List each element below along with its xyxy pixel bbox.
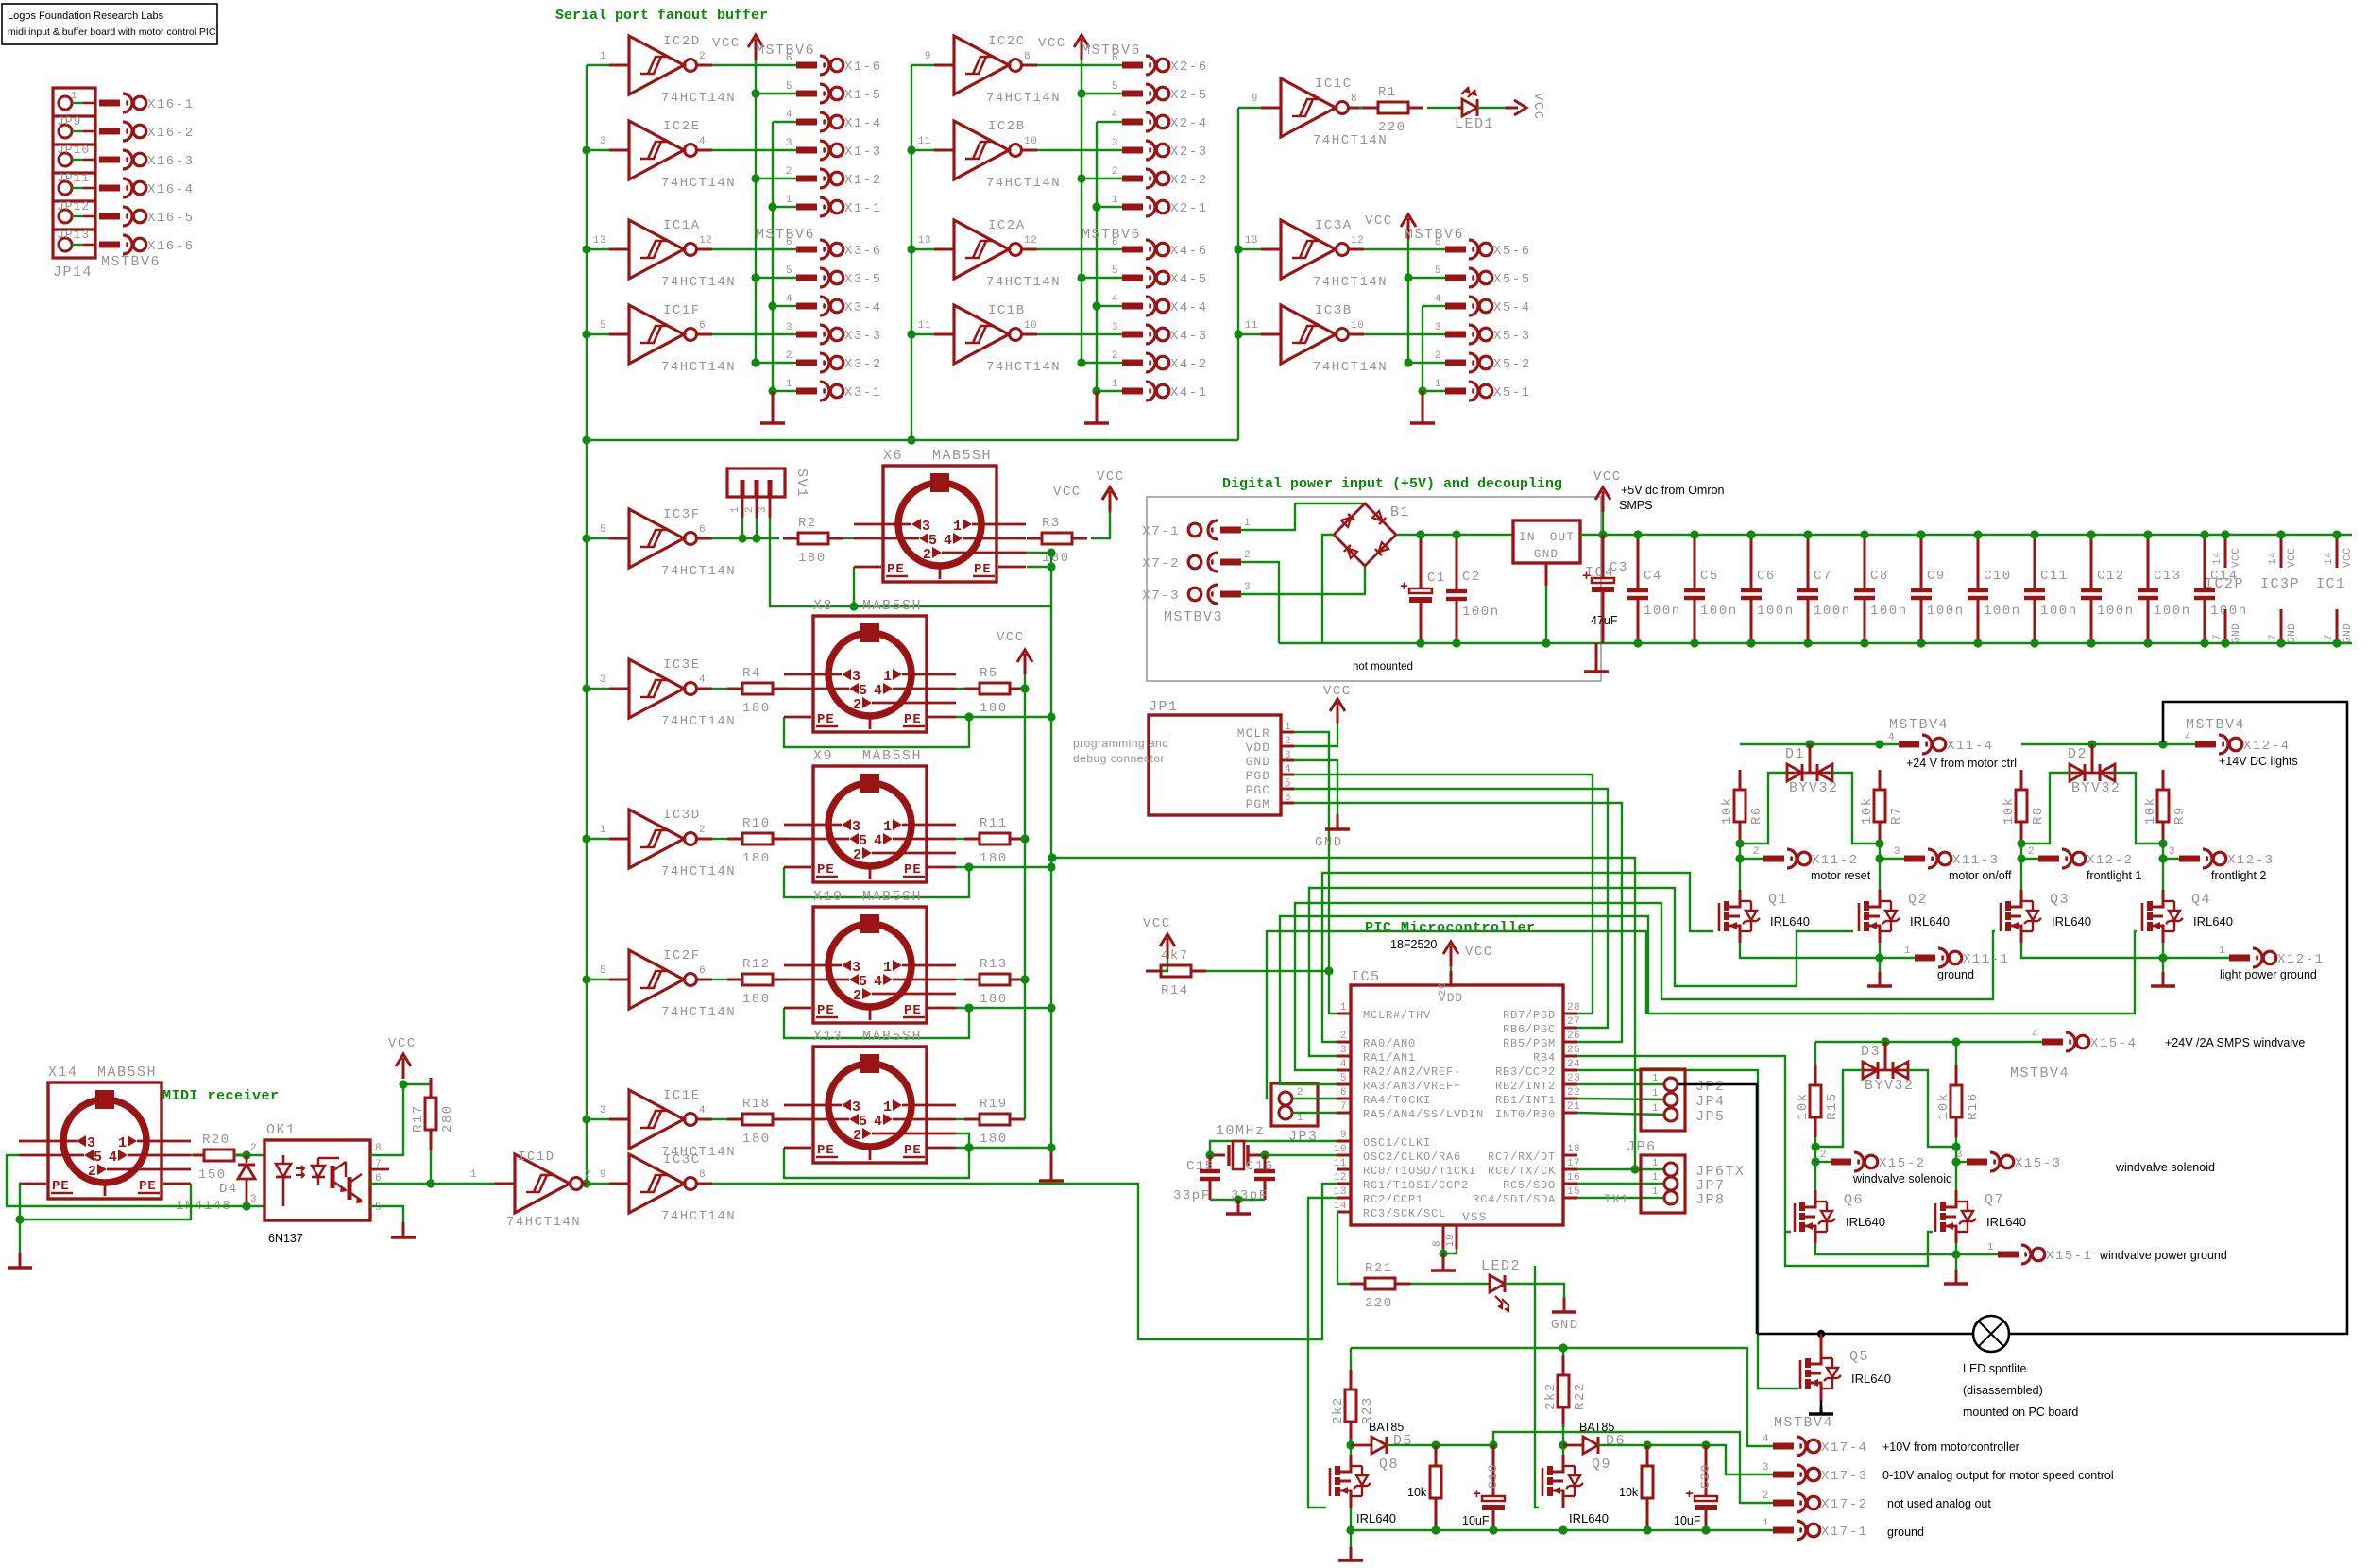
svg-text:1: 1 [2219,946,2225,957]
wire SV1 pins to IC3F output [741,518,743,538]
svg-text:5: 5 [1435,265,1441,277]
svg-text:frontlight 2: frontlight 2 [2211,869,2266,882]
svg-text:Q3: Q3 [2050,892,2070,908]
svg-text:6: 6 [1435,237,1441,248]
inverter IC3A 74HCT14N [1238,218,1388,290]
svg-text:JP12: JP12 [57,199,90,213]
svg-text:TX1: TX1 [1604,1192,1628,1206]
svg-text:VCC: VCC [712,36,741,51]
svg-text:RC6/TX/CK: RC6/TX/CK [1488,1165,1556,1178]
svg-text:BYV32: BYV32 [2071,780,2121,796]
svg-text:5: 5 [1112,265,1118,277]
svg-text:VCC: VCC [1530,93,1545,121]
svg-text:light power ground: light power ground [2220,968,2317,981]
wire LED2 to ground [1505,1284,1579,1333]
inverter IC3F 74HCT14N [587,507,736,579]
connector pin X15-1 [1987,1242,2093,1264]
capacitor C9 100n [1911,530,1965,647]
connector X2 MSTBV6 [1082,43,1208,216]
svg-text:VDD: VDD [1246,741,1270,755]
VCC arrow at R3 [1097,469,1125,512]
svg-text:74HCT14N: 74HCT14N [986,275,1061,290]
svg-text:BYV32: BYV32 [1789,780,1839,796]
wire R20 to OK1 pin2 [234,1154,264,1156]
svg-text:3: 3 [786,138,792,149]
svg-text:74HCT14N: 74HCT14N [506,1215,581,1230]
connector JP3 [1271,1083,1319,1145]
svg-text:LED2: LED2 [1481,1258,1521,1274]
svg-text:2: 2 [1340,1031,1347,1042]
svg-text:C18: C18 [1486,1464,1500,1489]
wire R1 to LED1 [1427,107,1462,109]
resistor R19 180 [964,1097,1025,1147]
svg-text:10uF: 10uF [1674,1514,1701,1527]
wire X14 pin5 loop to OK1 pin3 [7,1155,264,1206]
svg-text:debug connector: debug connector [1073,752,1165,765]
svg-text:X4-3: X4-3 [1170,329,1208,344]
svg-text:4: 4 [944,533,952,549]
svg-text:X12-3: X12-3 [2227,853,2274,868]
svg-text:14: 14 [2324,552,2335,565]
svg-text:6: 6 [699,320,706,332]
wire R14 to MCLR net [1206,970,1329,972]
svg-text:PE: PE [52,1179,70,1194]
svg-text:3: 3 [250,1194,257,1205]
svg-text:PE: PE [904,862,922,878]
svg-text:6N137: 6N137 [268,1232,303,1245]
svg-text:5: 5 [786,265,792,277]
pin7 stub OK1 [370,1168,389,1171]
DIN X6 wires: pin4 to R3 [1023,537,1026,539]
inverter IC2B 74HCT14N [911,119,1061,191]
resistor R18 180 [727,1097,788,1147]
svg-text:12: 12 [1351,235,1364,247]
svg-text:JP10: JP10 [57,143,90,157]
wire X7-2 to ground rail [1240,562,1279,643]
transistor Q5 IRL640 [1800,1334,1891,1400]
svg-text:mounted on PC board: mounted on PC board [1963,1406,2078,1419]
svg-text:IC2E: IC2E [663,119,701,134]
svg-text:X11-1: X11-1 [1963,952,2010,967]
svg-text:JP4: JP4 [1695,1094,1726,1110]
svg-text:74HCT14N: 74HCT14N [1313,133,1388,148]
svg-text:RB4: RB4 [1533,1051,1556,1065]
svg-text:74HCT14N: 74HCT14N [661,176,736,191]
wire JP3 pins to PIC RA4 RA5 [1292,1098,1337,1099]
capacitor C11 100n [2024,530,2078,647]
svg-text:X1-6: X1-6 [844,60,882,75]
svg-text:11: 11 [1245,320,1258,332]
wire IC4 OUT to VCC rail [1580,534,2352,536]
PE loop X10 [784,1003,1056,1038]
svg-text:4: 4 [786,110,792,121]
capacitor C20 10uF [1674,1445,1717,1530]
svg-text:BAT85: BAT85 [1369,1421,1404,1434]
junction dots serial bus [582,145,590,154]
IC5 PIC18F2520 box [1351,969,1563,1225]
svg-text:IN: IN [1519,530,1536,544]
svg-text:X13: X13 [813,1029,843,1045]
svg-text:4: 4 [699,674,706,686]
svg-text:X4-5: X4-5 [1170,272,1208,287]
DIN connector X6 MAB5SH [854,448,1026,582]
svg-text:220: 220 [1365,1296,1393,1311]
svg-text:18F2520: 18F2520 [1390,938,1437,951]
svg-text:MSTBV4: MSTBV4 [1889,717,1949,733]
LED LED1 [1455,87,1494,132]
svg-text:RC5/SDO: RC5/SDO [1503,1179,1556,1192]
svg-text:3: 3 [600,136,606,147]
svg-text:7: 7 [1340,1101,1347,1113]
svg-text:not mounted: not mounted [1353,661,1413,673]
svg-text:Digital power input (+5V) and: Digital power input (+5V) and decoupling [1222,476,1562,492]
svg-text:+24V /2A SMPS windvalve: +24V /2A SMPS windvalve [2165,1036,2305,1049]
inverter IC3E 74HCT14N [587,657,736,729]
svg-text:5: 5 [1285,778,1291,790]
capacitor C4 100n [1627,530,1681,647]
svg-text:JP1: JP1 [1149,699,1179,715]
svg-text:RC7/RX/DT: RC7/RX/DT [1488,1150,1556,1164]
svg-text:SMPS: SMPS [1619,499,1652,512]
svg-text:OUT: OUT [1550,530,1575,544]
DIN connector X13 MAB5SH [784,1029,956,1163]
X6 PE loop [853,567,855,606]
capacitor C1 47u? polarized [1400,535,1446,643]
resistor R4 180 [727,666,788,716]
capacitor C7 100n [1797,530,1851,647]
svg-text:RA1/AN1: RA1/AN1 [1363,1051,1416,1065]
connector X1 MSTBV6 [756,43,882,216]
svg-text:X3-1: X3-1 [844,385,882,401]
svg-text:R6: R6 [1749,806,1764,825]
svg-text:X3-2: X3-2 [844,357,882,372]
svg-text:5: 5 [1112,81,1118,93]
svg-text:X7-2: X7-2 [1142,556,1180,571]
svg-text:6: 6 [786,237,792,248]
svg-text:VCC: VCC [1143,916,1171,931]
svg-text:1: 1 [1297,1113,1303,1124]
capacitor C3 47uF polarized [1584,643,1609,672]
capacitor C8 100n [1854,530,1908,647]
svg-text:frontlight 1: frontlight 1 [2087,869,2141,882]
svg-text:1: 1 [883,1099,892,1116]
svg-text:10: 10 [1334,1144,1347,1155]
svg-text:IRL640: IRL640 [2052,914,2091,929]
svg-text:+24 V from motor ctrl: +24 V from motor ctrl [1906,757,2017,770]
svg-text:X5-3: X5-3 [1493,329,1531,344]
svg-text:D4: D4 [219,1182,238,1197]
transistor Q7 IRL640 [1935,1190,2026,1243]
svg-text:RA2/AN2/VREF-: RA2/AN2/VREF- [1363,1065,1461,1079]
svg-text:R12: R12 [742,957,771,972]
svg-text:74HCT14N: 74HCT14N [1313,360,1388,375]
svg-text:6: 6 [699,524,706,536]
svg-text:X3-5: X3-5 [844,272,882,287]
svg-text:GND: GND [1534,547,1559,561]
svg-text:GND: GND [2231,623,2242,643]
wire PIC RB4 to Q6/Q7 gates [1577,1056,1791,1232]
svg-text:14: 14 [2212,552,2223,565]
wire R12 to DIN pin5 [788,979,797,980]
svg-text:74HCT14N: 74HCT14N [661,91,736,106]
ground at shield bus below X13 [1039,1143,1064,1181]
svg-text:1: 1 [953,519,962,535]
svg-text:X14: X14 [48,1065,78,1081]
svg-text:LED spotlite: LED spotlite [1963,1362,2026,1375]
svg-text:8: 8 [1024,51,1031,62]
svg-text:100n: 100n [1462,605,1500,620]
svg-text:180: 180 [798,551,826,566]
svg-text:4: 4 [1112,110,1118,121]
svg-text:X17-3: X17-3 [1821,1469,1868,1484]
svg-text:X2-5: X2-5 [1170,88,1208,103]
svg-text:X17-2: X17-2 [1821,1497,1868,1512]
resistor R12 180 [727,957,788,1007]
resistor R17 280 [411,1078,455,1150]
svg-text:74HCT14N: 74HCT14N [986,176,1061,191]
svg-text:X17-4: X17-4 [1821,1440,1868,1456]
svg-text:74HCT14N: 74HCT14N [661,1209,736,1224]
wire D1 left to junction [1740,773,1787,844]
svg-text:74HCT14N: 74HCT14N [661,275,736,290]
svg-text:14: 14 [1334,1201,1347,1212]
DIN connector X14 MAB5SH [19,1065,191,1199]
svg-text:3: 3 [2169,846,2175,858]
svg-text:JP6: JP6 [1627,1139,1657,1155]
svg-text:IC1A: IC1A [663,218,701,233]
DIN connector X10 MAB5SH [784,889,956,1023]
svg-text:8: 8 [375,1143,382,1154]
svg-text:10k: 10k [1407,1486,1427,1499]
svg-text:+: + [1582,569,1591,585]
svg-text:R19: R19 [980,1097,1008,1112]
svg-text:IC3B: IC3B [1315,303,1353,318]
svg-text:OK1: OK1 [266,1122,297,1138]
svg-text:JP3: JP3 [1288,1129,1319,1145]
svg-text:X5-2: X5-2 [1493,357,1531,372]
svg-text:PE: PE [974,562,992,577]
wire PIC RA1 to Q2 gate [1309,888,1853,1056]
svg-text:LED1: LED1 [1455,116,1494,132]
svg-text:PE: PE [817,1003,835,1018]
svg-text:X5-4: X5-4 [1493,300,1531,315]
svg-text:IC3P: IC3P [2260,576,2300,592]
svg-text:180: 180 [980,1132,1008,1147]
svg-text:C5: C5 [1700,569,1719,584]
wire D1 right to junction [1832,773,1880,844]
svg-text:9: 9 [1252,94,1258,105]
svg-text:X15-3: X15-3 [2015,1156,2062,1171]
inverter IC1D 74HCT14N [470,1150,591,1230]
svg-text:C15: C15 [1186,1159,1215,1174]
svg-text:R5: R5 [980,666,998,681]
svg-text:4k7: 4k7 [1161,948,1189,963]
svg-text:2: 2 [699,825,706,836]
svg-text:10: 10 [1024,136,1037,147]
connector pin X11-3 [1894,846,2000,868]
crystal Q 10MHz [1210,1141,1265,1169]
svg-text:1: 1 [1652,1088,1659,1099]
svg-text:X15-4: X15-4 [2090,1036,2138,1051]
svg-text:74HCT14N: 74HCT14N [986,91,1061,106]
svg-text:1: 1 [600,51,606,62]
svg-text:MAB5SH: MAB5SH [932,448,992,464]
svg-text:4: 4 [1435,294,1441,305]
wire OK1 pin5 to ground [370,1206,416,1237]
wire +10V rail from X17-4 to R22 R23 [1351,1348,1773,1446]
wire PIC RA0 to Q1 gate [1322,873,1713,1042]
svg-text:X15-1: X15-1 [2046,1249,2093,1264]
svg-text:R3: R3 [1042,516,1061,531]
svg-text:180: 180 [980,851,1008,866]
svg-text:RB2/INT2: RB2/INT2 [1495,1080,1556,1093]
svg-text:11: 11 [1334,1158,1347,1169]
wire IC3C output serial to PIC RC1 [712,1184,1337,1339]
connector JP14 [53,88,95,281]
svg-text:2: 2 [2028,846,2035,858]
inverter IC1A 74HCT14N [587,218,736,290]
dual diode D3 BYV32 [1861,1042,1915,1094]
svg-text:100n: 100n [1644,604,1681,619]
svg-text:1: 1 [1652,1073,1659,1084]
svg-text:MIDI receiver: MIDI receiver [162,1088,280,1104]
svg-text:MSTBV4: MSTBV4 [1774,1415,1833,1431]
svg-text:IC2C: IC2C [988,34,1026,49]
wire gate output to R10 [712,838,727,840]
resistor R23 2k2 [1331,1348,1375,1441]
connector pin X11-4 [1888,732,1994,754]
inverter IC2D 74HCT14N [587,34,736,106]
svg-text:C13: C13 [2154,569,2182,584]
svg-text:23: 23 [1567,1073,1580,1084]
svg-text:VCC: VCC [1593,469,1622,485]
ground below X5 [1410,391,1435,423]
svg-text:+5V dc from Omron: +5V dc from Omron [1621,484,1724,497]
svg-text:PE: PE [817,1143,835,1158]
svg-text:VCC: VCC [1038,36,1066,51]
svg-text:10: 10 [1351,320,1364,332]
svg-text:15: 15 [1567,1186,1580,1198]
wire DIN pin4 to R13 [956,979,969,980]
capacitor C16 33pF [1231,1155,1275,1203]
svg-text:C10: C10 [1984,569,2012,584]
svg-text:2: 2 [786,350,792,362]
svg-text:X12-4: X12-4 [2243,739,2291,754]
svg-text:X5-1: X5-1 [1493,385,1531,401]
inverter IC1B 74HCT14N [911,303,1061,375]
svg-text:2: 2 [853,697,861,713]
svg-text:JP8: JP8 [1695,1192,1726,1208]
svg-text:RC0/T1OSO/T1CKI: RC0/T1OSO/T1CKI [1363,1165,1476,1178]
svg-text:100n: 100n [2097,604,2135,619]
svg-text:JP14: JP14 [53,264,93,281]
svg-text:X11-4: X11-4 [1947,739,1994,754]
svg-text:12: 12 [699,235,712,247]
inverter IC3B 74HCT14N [1238,303,1388,375]
svg-text:2: 2 [1297,1087,1303,1099]
svg-text:D3: D3 [1861,1044,1881,1060]
bridge rectifier B1 [1334,503,1410,566]
wire OK1 pin8 to VCC [370,1084,403,1155]
svg-text:C1: C1 [1427,571,1446,586]
PE loop X9 [784,862,1056,897]
svg-text:windvalve power ground: windvalve power ground [2099,1249,2227,1262]
svg-text:7: 7 [2268,634,2279,640]
wires R bottoms to pins and drains [2017,839,2179,890]
svg-text:1: 1 [1652,1172,1659,1184]
svg-text:2: 2 [1244,550,1251,561]
svg-text:VCC: VCC [1465,945,1493,960]
svg-text:VCC: VCC [997,630,1025,645]
wire R17 to pin6 net [430,1150,432,1184]
svg-text:+14V DC lights: +14V DC lights [2219,755,2298,768]
resistor R6 10k [1720,770,1764,842]
svg-text:21: 21 [1567,1101,1580,1113]
svg-text:10k: 10k [2002,796,2017,825]
wire JP1 PGM to PIC RB5 [1294,803,1622,1042]
svg-text:GND: GND [2342,623,2354,643]
svg-text:2: 2 [1435,350,1441,362]
connector X4 MSTBV6 [1082,227,1208,401]
svg-text:1: 1 [883,819,892,835]
svg-text:6: 6 [1340,1087,1347,1099]
svg-text:R21: R21 [1365,1261,1393,1276]
transistor Q3 IRL640 [2001,890,2091,943]
svg-text:IC2B: IC2B [988,119,1026,134]
svg-text:C3: C3 [1610,560,1628,575]
inverter IC3C 74HCT14N [587,1152,736,1224]
svg-text:4: 4 [874,1114,882,1130]
svg-text:INT0/RB0: INT0/RB0 [1495,1108,1556,1121]
wire D3 right [1908,1070,1956,1147]
svg-text:2: 2 [923,547,931,563]
svg-text:100n: 100n [1927,604,1965,619]
svg-text:BAT85: BAT85 [1579,1421,1614,1434]
svg-text:2: 2 [1285,736,1291,747]
svg-text:19: 19 [1445,1234,1457,1247]
svg-text:13: 13 [1334,1186,1347,1198]
dual diode D1 BYV32 [1785,744,1839,796]
svg-text:D1: D1 [1785,746,1805,762]
svg-text:X15-2: X15-2 [1879,1156,1926,1171]
wire serial bus horizontal y=466 [587,439,1238,441]
svg-text:26: 26 [1567,1031,1580,1042]
wire R21 to LED2 [1410,1283,1490,1285]
svg-text:1: 1 [1340,1002,1347,1014]
svg-text:R2: R2 [798,516,817,531]
resistor 10k bleed Q9 [1619,1445,1653,1530]
VCC arrow feeding R3 zone [1053,485,1117,512]
svg-text:Q2: Q2 [1908,892,1928,908]
svg-text:1: 1 [1285,722,1291,733]
svg-text:ground: ground [1887,1525,1924,1539]
resistor R1 220 [1363,85,1423,135]
svg-text:IRL640: IRL640 [1910,914,1950,929]
svg-text:4: 4 [2032,1030,2038,1041]
svg-text:midi input & buffer board with: midi input & buffer board with motor con… [8,26,216,38]
svg-text:X16-3: X16-3 [147,154,195,169]
svg-text:X12-1: X12-1 [2277,952,2325,967]
wire X14 pin4 to R20 [191,1154,204,1156]
svg-text:X11-2: X11-2 [1812,853,1859,868]
svg-text:VSS: VSS [1462,1210,1487,1224]
svg-text:BYV32: BYV32 [1865,1078,1915,1094]
svg-text:1: 1 [786,195,792,206]
IC power pins IC2P IC3P IC1P [2205,530,2244,647]
resistor R13 180 [964,957,1025,1007]
svg-text:MAB5SH: MAB5SH [862,598,922,614]
wire X7-3 to bridge bottom [1240,566,1365,594]
